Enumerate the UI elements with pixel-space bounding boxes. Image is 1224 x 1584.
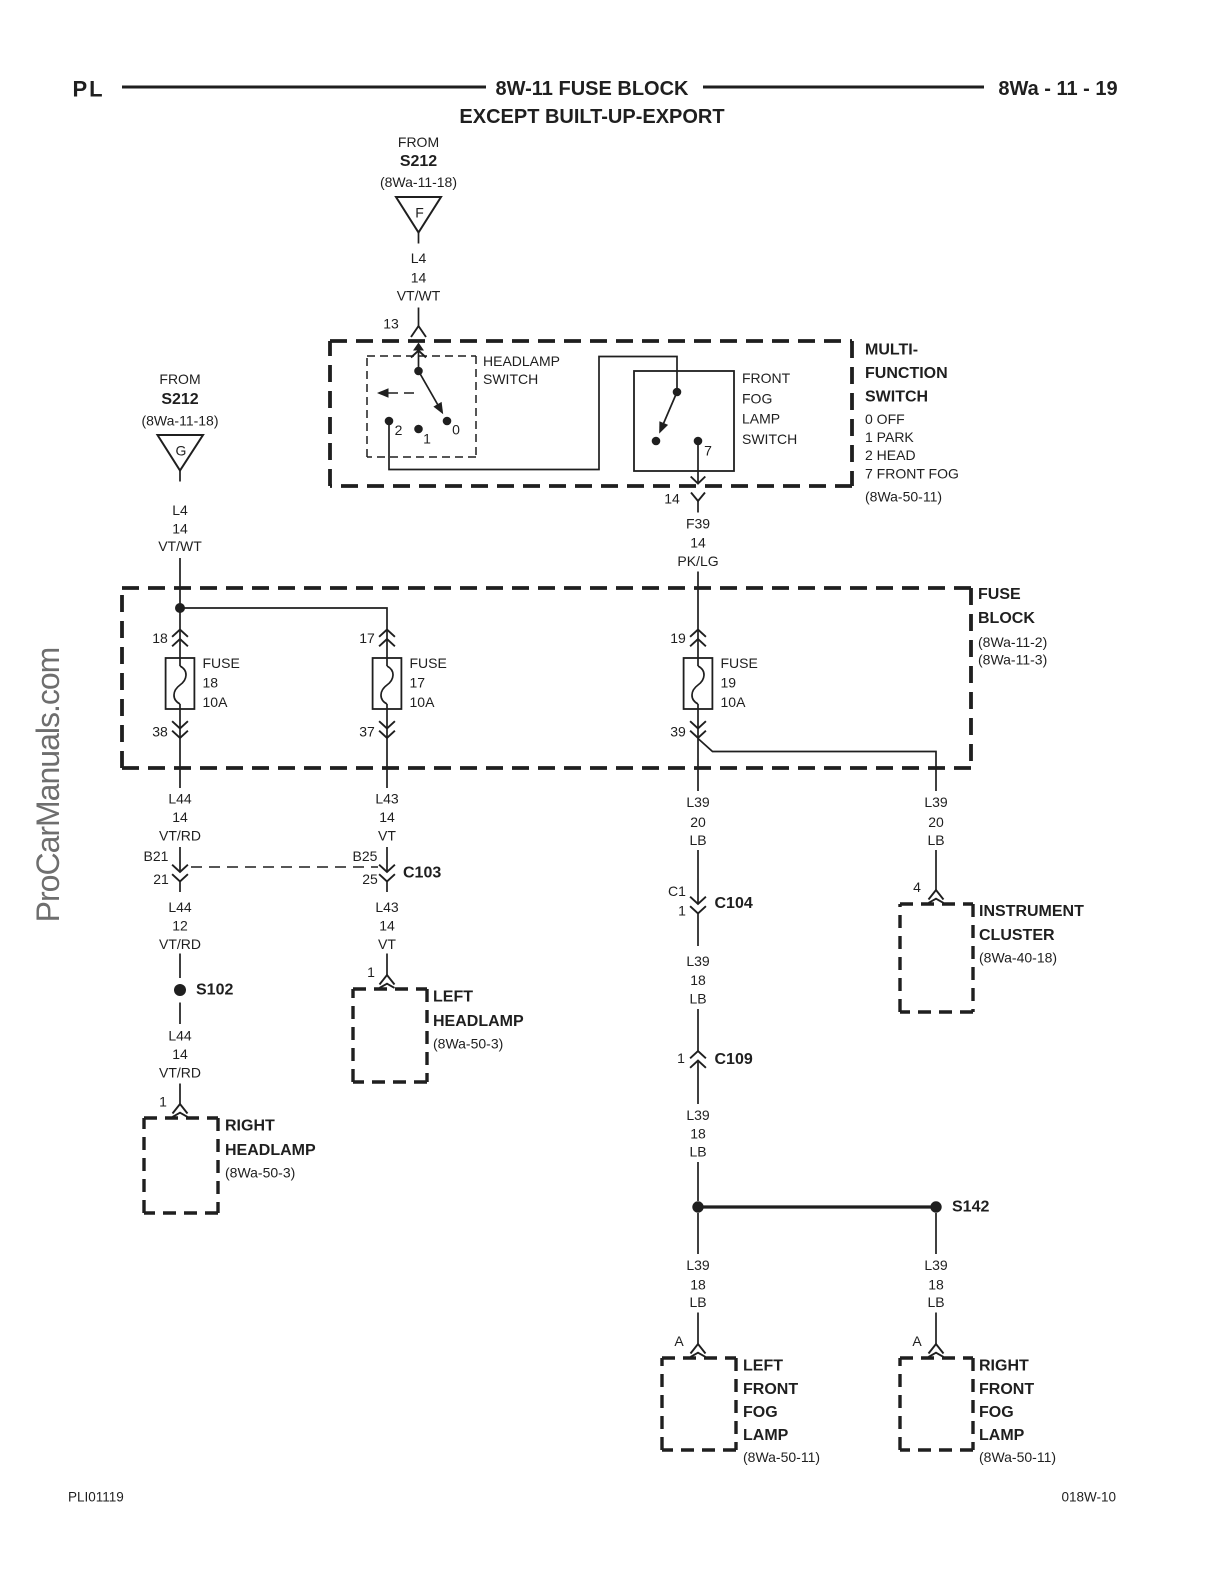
svg-text:14: 14 [172,809,188,825]
svg-text:PK/LG: PK/LG [677,553,718,569]
svg-text:18: 18 [690,1126,706,1142]
right front fog lamp name label [979,1358,1056,1466]
svg-text:2 HEAD: 2 HEAD [865,447,916,463]
fuse block cavity pin 18 (upstream connector) [152,630,188,647]
svg-text:018W-10: 018W-10 [1061,1490,1116,1505]
svg-text:14: 14 [379,809,395,825]
connector pin 1 of left headlamp [367,964,394,988]
svg-text:C104: C104 [715,895,753,912]
svg-text:RIGHT: RIGHT [225,1118,275,1135]
right front fog lamp component box [900,1356,973,1359]
svg-text:B25: B25 [353,848,378,864]
svg-text:1: 1 [159,1094,167,1110]
wire into splice S102 [179,954,181,979]
svg-text:B21: B21 [144,848,169,864]
svg-text:C1: C1 [668,883,686,899]
svg-text:37: 37 [359,724,375,740]
svg-text:C109: C109 [715,1051,753,1068]
svg-text:HEADLAMP: HEADLAMP [225,1142,316,1159]
svg-text:(8Wa-50-3): (8Wa-50-3) [433,1036,503,1052]
svg-text:L39: L39 [686,1107,710,1123]
wire into left headlamp pin 1 [386,954,388,976]
svg-text:10A: 10A [721,694,747,710]
svg-text:14: 14 [379,918,395,934]
node G from S212 label [141,371,218,429]
svg-text:S212: S212 [161,391,198,408]
wire label L39 18 LB (above C109) [686,953,710,1007]
svg-text:21: 21 [153,871,169,887]
svg-text:L39: L39 [686,953,710,969]
svg-text:FOG: FOG [742,391,772,407]
headlamp switch pivot [414,367,423,376]
wire: triangle F stub [418,233,420,244]
connector pin A of left front fog lamp [674,1333,705,1357]
svg-text:FOG: FOG [979,1404,1014,1421]
wire label L39 20 LB (left run) [686,794,710,848]
svg-text:(8Wa-50-11): (8Wa-50-11) [865,489,942,505]
svg-text:VT: VT [378,936,396,952]
wire label F39 14 PK/LG [677,516,718,570]
fuse block name label [978,586,1047,668]
wire label L39 18 LB (left fog) [686,1257,710,1310]
wire: triangle G stub [179,471,181,482]
left headlamp name label [433,989,524,1052]
connector pin A of right front fog lamp [912,1333,943,1357]
fuse F17 body [373,658,402,709]
svg-text:L39: L39 [686,794,710,810]
svg-text:10A: 10A [410,694,436,710]
svg-text:HEADLAMP: HEADLAMP [433,1013,524,1030]
svg-text:A: A [674,1333,684,1349]
fuse F18 body [166,658,195,709]
svg-text:39: 39 [670,724,686,740]
off-page connector triangle G [158,435,204,471]
svg-text:L43: L43 [375,899,399,915]
svg-text:LAMP: LAMP [742,411,780,427]
svg-text:C103: C103 [403,865,441,882]
svg-text:25: 25 [362,871,378,887]
splice S142 node (left) [692,1201,703,1212]
svg-text:LAMP: LAMP [979,1427,1025,1444]
svg-text:LB: LB [927,832,944,848]
svg-text:(8Wa-11-18): (8Wa-11-18) [380,174,457,190]
fuse block cavity pin 39 (downstream connector) [670,721,706,739]
splice S102 [174,982,233,999]
node F from S212 label [380,134,457,190]
wire into right fog lamp pin A [935,1313,937,1345]
page header title [73,77,1118,129]
front fog lamp switch box [634,371,734,471]
fuse block cavity pin 17 (upstream connector) [359,630,395,647]
svg-text:FROM: FROM [159,371,200,387]
wire: G feed into fuse block [179,558,181,666]
svg-text:FUSE: FUSE [978,586,1021,603]
svg-text:SWITCH: SWITCH [742,431,797,447]
wire into connector C103 pin B25 [386,847,388,872]
svg-text:18: 18 [152,630,168,646]
left front fog lamp name label [743,1358,820,1466]
svg-text:LEFT: LEFT [743,1358,783,1375]
fog switch pivot [673,388,682,397]
connector pin 4 of instrument cluster [913,879,943,903]
connector C103 half, cavity B25/25 [353,848,442,892]
svg-text:38: 38 [152,724,168,740]
svg-text:VT/WT: VT/WT [158,538,202,554]
wire label L44 14 VT/RD (lower) [159,1028,201,1081]
wire label L39 18 LB (right fog) [924,1257,948,1310]
instrument cluster name label [979,903,1084,966]
fuse block cavity pin 37 (downstream connector) [359,721,395,739]
svg-text:VT/RD: VT/RD [159,1065,201,1081]
svg-text:FRONT: FRONT [743,1381,798,1398]
svg-text:LB: LB [927,1294,944,1310]
svg-text:(8Wa-11-2): (8Wa-11-2) [978,634,1047,650]
svg-text:F39: F39 [686,516,710,532]
left headlamp component box [353,987,427,990]
svg-text:FRONT: FRONT [979,1381,1034,1398]
svg-text:(8Wa-11-18): (8Wa-11-18) [141,413,218,429]
wire: below fuse 19 [697,704,699,791]
wire: F39 feed into fuse block [697,572,699,667]
svg-text:VT/RD: VT/RD [159,828,201,844]
svg-text:(8Wa-50-11): (8Wa-50-11) [743,1449,820,1465]
svg-text:RIGHT: RIGHT [979,1358,1029,1375]
svg-text:18: 18 [928,1277,944,1293]
wire label L4 14 VT/WT (F branch) [397,250,441,304]
svg-text:FUSE: FUSE [410,655,447,671]
svg-text:EXCEPT BUILT-UP-EXPORT: EXCEPT BUILT-UP-EXPORT [459,106,724,128]
wire: below fuse 17 [386,704,388,788]
svg-text:VT/WT: VT/WT [397,288,441,304]
wire into connector C109 [697,1009,699,1051]
wire: below fuse 18 [179,704,181,788]
svg-text:13: 13 [383,316,399,332]
svg-text:14: 14 [411,270,427,286]
svg-text:S102: S102 [196,982,233,999]
fuse block cavity pin 19 (upstream connector) [670,630,706,647]
svg-text:L44: L44 [168,1028,192,1044]
svg-text:1: 1 [367,964,375,980]
left front fog lamp component box [662,1356,736,1359]
wire: S142 to left front fog lamp [697,1213,699,1254]
svg-text:L39: L39 [924,794,948,810]
svg-text:FUSE: FUSE [203,655,240,671]
wire: branch from G feed to fuse 17 [180,608,387,666]
svg-text:INSTRUMENT: INSTRUMENT [979,903,1084,920]
svg-text:(8Wa-40-18): (8Wa-40-18) [979,950,1057,966]
wire: S142 to right front fog lamp [935,1213,937,1254]
fuse F19 body [684,658,713,709]
svg-text:VT/RD: VT/RD [159,936,201,952]
svg-text:BLOCK: BLOCK [978,610,1035,627]
svg-text:LAMP: LAMP [743,1427,789,1444]
off-page connector triangle F [396,197,441,233]
svg-text:LB: LB [689,832,706,848]
svg-text:S142: S142 [952,1199,989,1216]
footer sheet codes [68,1490,1116,1505]
svg-text:0 OFF: 0 OFF [865,411,905,427]
wire into right headlamp pin 1 [179,1084,181,1105]
svg-text:LB: LB [689,1294,706,1310]
wire: fog switch 7 down to connector 14 [697,445,699,483]
headlamp switch contact 0 [443,417,460,438]
front fog lamp switch label [742,370,797,447]
headlamp switch label [483,353,560,387]
svg-text:20: 20 [928,814,944,830]
svg-text:L44: L44 [168,791,192,807]
svg-text:MULTI-: MULTI- [865,342,918,359]
wire into instrument cluster pin 4 [935,850,937,890]
svg-text:18: 18 [203,675,219,691]
connector pin 14 out of multi-function switch [664,477,705,513]
right headlamp name label [225,1118,316,1181]
fuse 17 value label [410,655,447,710]
wire: headlamp switch 2 to front fog lamp switch [389,357,677,470]
wire: S102 down [179,1003,181,1025]
svg-text:S212: S212 [400,153,437,170]
svg-text:14: 14 [172,1046,188,1062]
wire: branch from fuse 19 to instrument cluster column [698,739,936,792]
svg-text:1: 1 [677,1050,685,1066]
connector pin 13 into multi-function switch [383,316,426,358]
svg-text:LB: LB [689,1144,706,1160]
svg-text:7: 7 [704,443,712,459]
svg-text:L44: L44 [168,899,192,915]
connector C103 half, cavity B21/21 [144,848,188,892]
fuse 18 value label [203,655,240,710]
svg-text:1: 1 [423,431,431,447]
headlamp switch momentary arrow (left) [377,388,414,398]
svg-text:FUSE: FUSE [721,655,758,671]
multi-function switch name label [865,342,959,505]
svg-text:14: 14 [690,535,706,551]
svg-text:SWITCH: SWITCH [483,371,538,387]
connector C109, cavity 1 [677,1050,753,1104]
svg-text:18: 18 [690,972,706,988]
wire into connector C104 [697,850,699,904]
svg-text:PLI01119: PLI01119 [68,1490,124,1505]
wire: connector 13 to headlamp switch pivot [418,351,420,371]
wire: F feed down to connector 13 [418,308,420,327]
wire into left fog lamp pin A [697,1313,699,1345]
headlamp switch inner dashed box [367,355,476,357]
svg-text:LB: LB [689,991,706,1007]
wire label L43 14 VT (upper) [375,791,399,844]
svg-text:10A: 10A [203,694,229,710]
svg-text:0: 0 [452,422,460,438]
svg-text:12: 12 [172,918,188,934]
multi-function switch outer dashed box [330,339,852,343]
right headlamp component box [144,1116,218,1119]
wire into connector C103 pin B21 [179,847,181,872]
svg-text:L39: L39 [924,1257,948,1273]
svg-text:FRONT: FRONT [742,370,791,386]
svg-text:(8Wa-50-11): (8Wa-50-11) [979,1449,1056,1465]
svg-text:HEADLAMP: HEADLAMP [483,353,560,369]
svg-text:14: 14 [664,491,680,507]
svg-text:1: 1 [678,903,686,919]
svg-text:FROM: FROM [398,134,439,150]
svg-text:7 FRONT FOG: 7 FRONT FOG [865,466,959,482]
connector C104, cavity C1/1 [668,883,753,946]
fog switch contact (left) [652,437,661,446]
wire label L43 14 VT (lower) [375,899,399,952]
wire label L44 12 VT/RD (middle) [159,899,201,952]
svg-text:VT: VT [378,828,396,844]
wire into splice S142 [697,1162,699,1201]
svg-text:A: A [912,1333,922,1349]
svg-text:FUNCTION: FUNCTION [865,365,948,382]
fog switch contact 7 [694,437,712,459]
svg-text:(8Wa-50-3): (8Wa-50-3) [225,1165,295,1181]
svg-text:14: 14 [172,521,188,537]
connector C103 dashed tie line [191,866,378,868]
splice S142 tie wire [698,1205,936,1208]
fuse 19 value label [721,655,758,710]
connector pin 1 of right headlamp [159,1094,187,1117]
wire label L39 20 LB (right run) [924,794,948,848]
headlamp switch contact 1 [414,425,431,447]
headlamp switch contact 2 [385,417,403,438]
svg-text:PL: PL [73,77,105,102]
svg-text:L39: L39 [686,1257,710,1273]
svg-text:LEFT: LEFT [433,989,473,1006]
svg-text:17: 17 [410,675,426,691]
svg-text:20: 20 [690,814,706,830]
svg-text:4: 4 [913,879,921,895]
fuse block dashed box [122,586,971,590]
svg-text:8W-11 FUSE BLOCK: 8W-11 FUSE BLOCK [496,78,690,100]
svg-text:17: 17 [359,630,375,646]
svg-text:1 PARK: 1 PARK [865,429,914,445]
svg-text:8Wa - 11 - 19: 8Wa - 11 - 19 [998,78,1117,100]
wire label L39 18 LB (above S142) [686,1107,710,1160]
svg-text:CLUSTER: CLUSTER [979,927,1055,944]
svg-text:2: 2 [395,422,403,438]
splice S142 node (right) [930,1199,989,1216]
svg-text:L4: L4 [411,250,427,266]
svg-text:L43: L43 [375,791,399,807]
fuse block cavity pin 38 (downstream connector) [152,721,188,739]
svg-text:SWITCH: SWITCH [865,389,928,406]
svg-text:G: G [176,443,187,459]
svg-text:ProCarManuals.com: ProCarManuals.com [30,648,66,923]
svg-text:19: 19 [721,675,737,691]
svg-text:F: F [415,205,424,221]
wire label L4 14 VT/WT (G branch) [158,502,202,554]
svg-text:FOG: FOG [743,1404,778,1421]
instrument cluster component box [900,902,973,905]
headlamp switch wiper arm to position 0 [419,371,444,414]
fog switch wiper arm [659,392,677,434]
svg-text:18: 18 [690,1277,706,1293]
splice node on G feed [175,603,185,613]
svg-text:(8Wa-11-3): (8Wa-11-3) [978,652,1047,668]
svg-text:L4: L4 [172,502,188,518]
wire label L44 14 VT/RD (upper) [159,791,201,844]
svg-text:19: 19 [670,630,686,646]
